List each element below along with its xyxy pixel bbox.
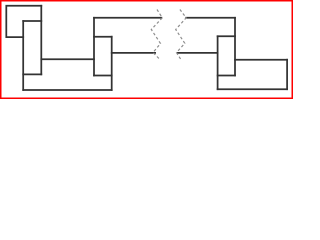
link L bottom edge left part <box>112 52 155 54</box>
break mark zigzag Z2 <box>176 10 187 61</box>
wire D'/C' shared left edge <box>217 36 219 89</box>
link C' bottom edge <box>218 88 288 90</box>
link L bottom edge right part <box>178 52 218 54</box>
wire C/D shared right edge <box>111 37 113 90</box>
link A (top-left square) <box>6 6 41 37</box>
link B bottom edge <box>23 73 41 75</box>
link C' (bottom-right slab) top edge <box>235 59 287 61</box>
link L (long link) top edge left part <box>94 17 161 19</box>
link C' right edge <box>286 60 288 89</box>
wire D/L shared left edge <box>93 18 95 76</box>
link C bottom edge <box>23 89 112 91</box>
link D' (middle-right vertical link) top edge <box>218 35 235 37</box>
wire L/D' shared right edge <box>234 18 236 76</box>
link D bottom edge <box>94 75 112 77</box>
link C (left horizontal slab) top edge <box>41 58 94 60</box>
wire B/C shared left edge <box>22 21 24 90</box>
link D (middle-left vertical link) top edge <box>94 36 112 38</box>
wire A/B shared right edge <box>40 6 42 75</box>
link D' bottom edge <box>218 75 235 77</box>
break mark zigzag Z1 <box>151 10 162 61</box>
link L top edge right part <box>186 17 235 19</box>
red page border <box>1 1 293 99</box>
link B (left vertical link) <box>23 20 41 22</box>
